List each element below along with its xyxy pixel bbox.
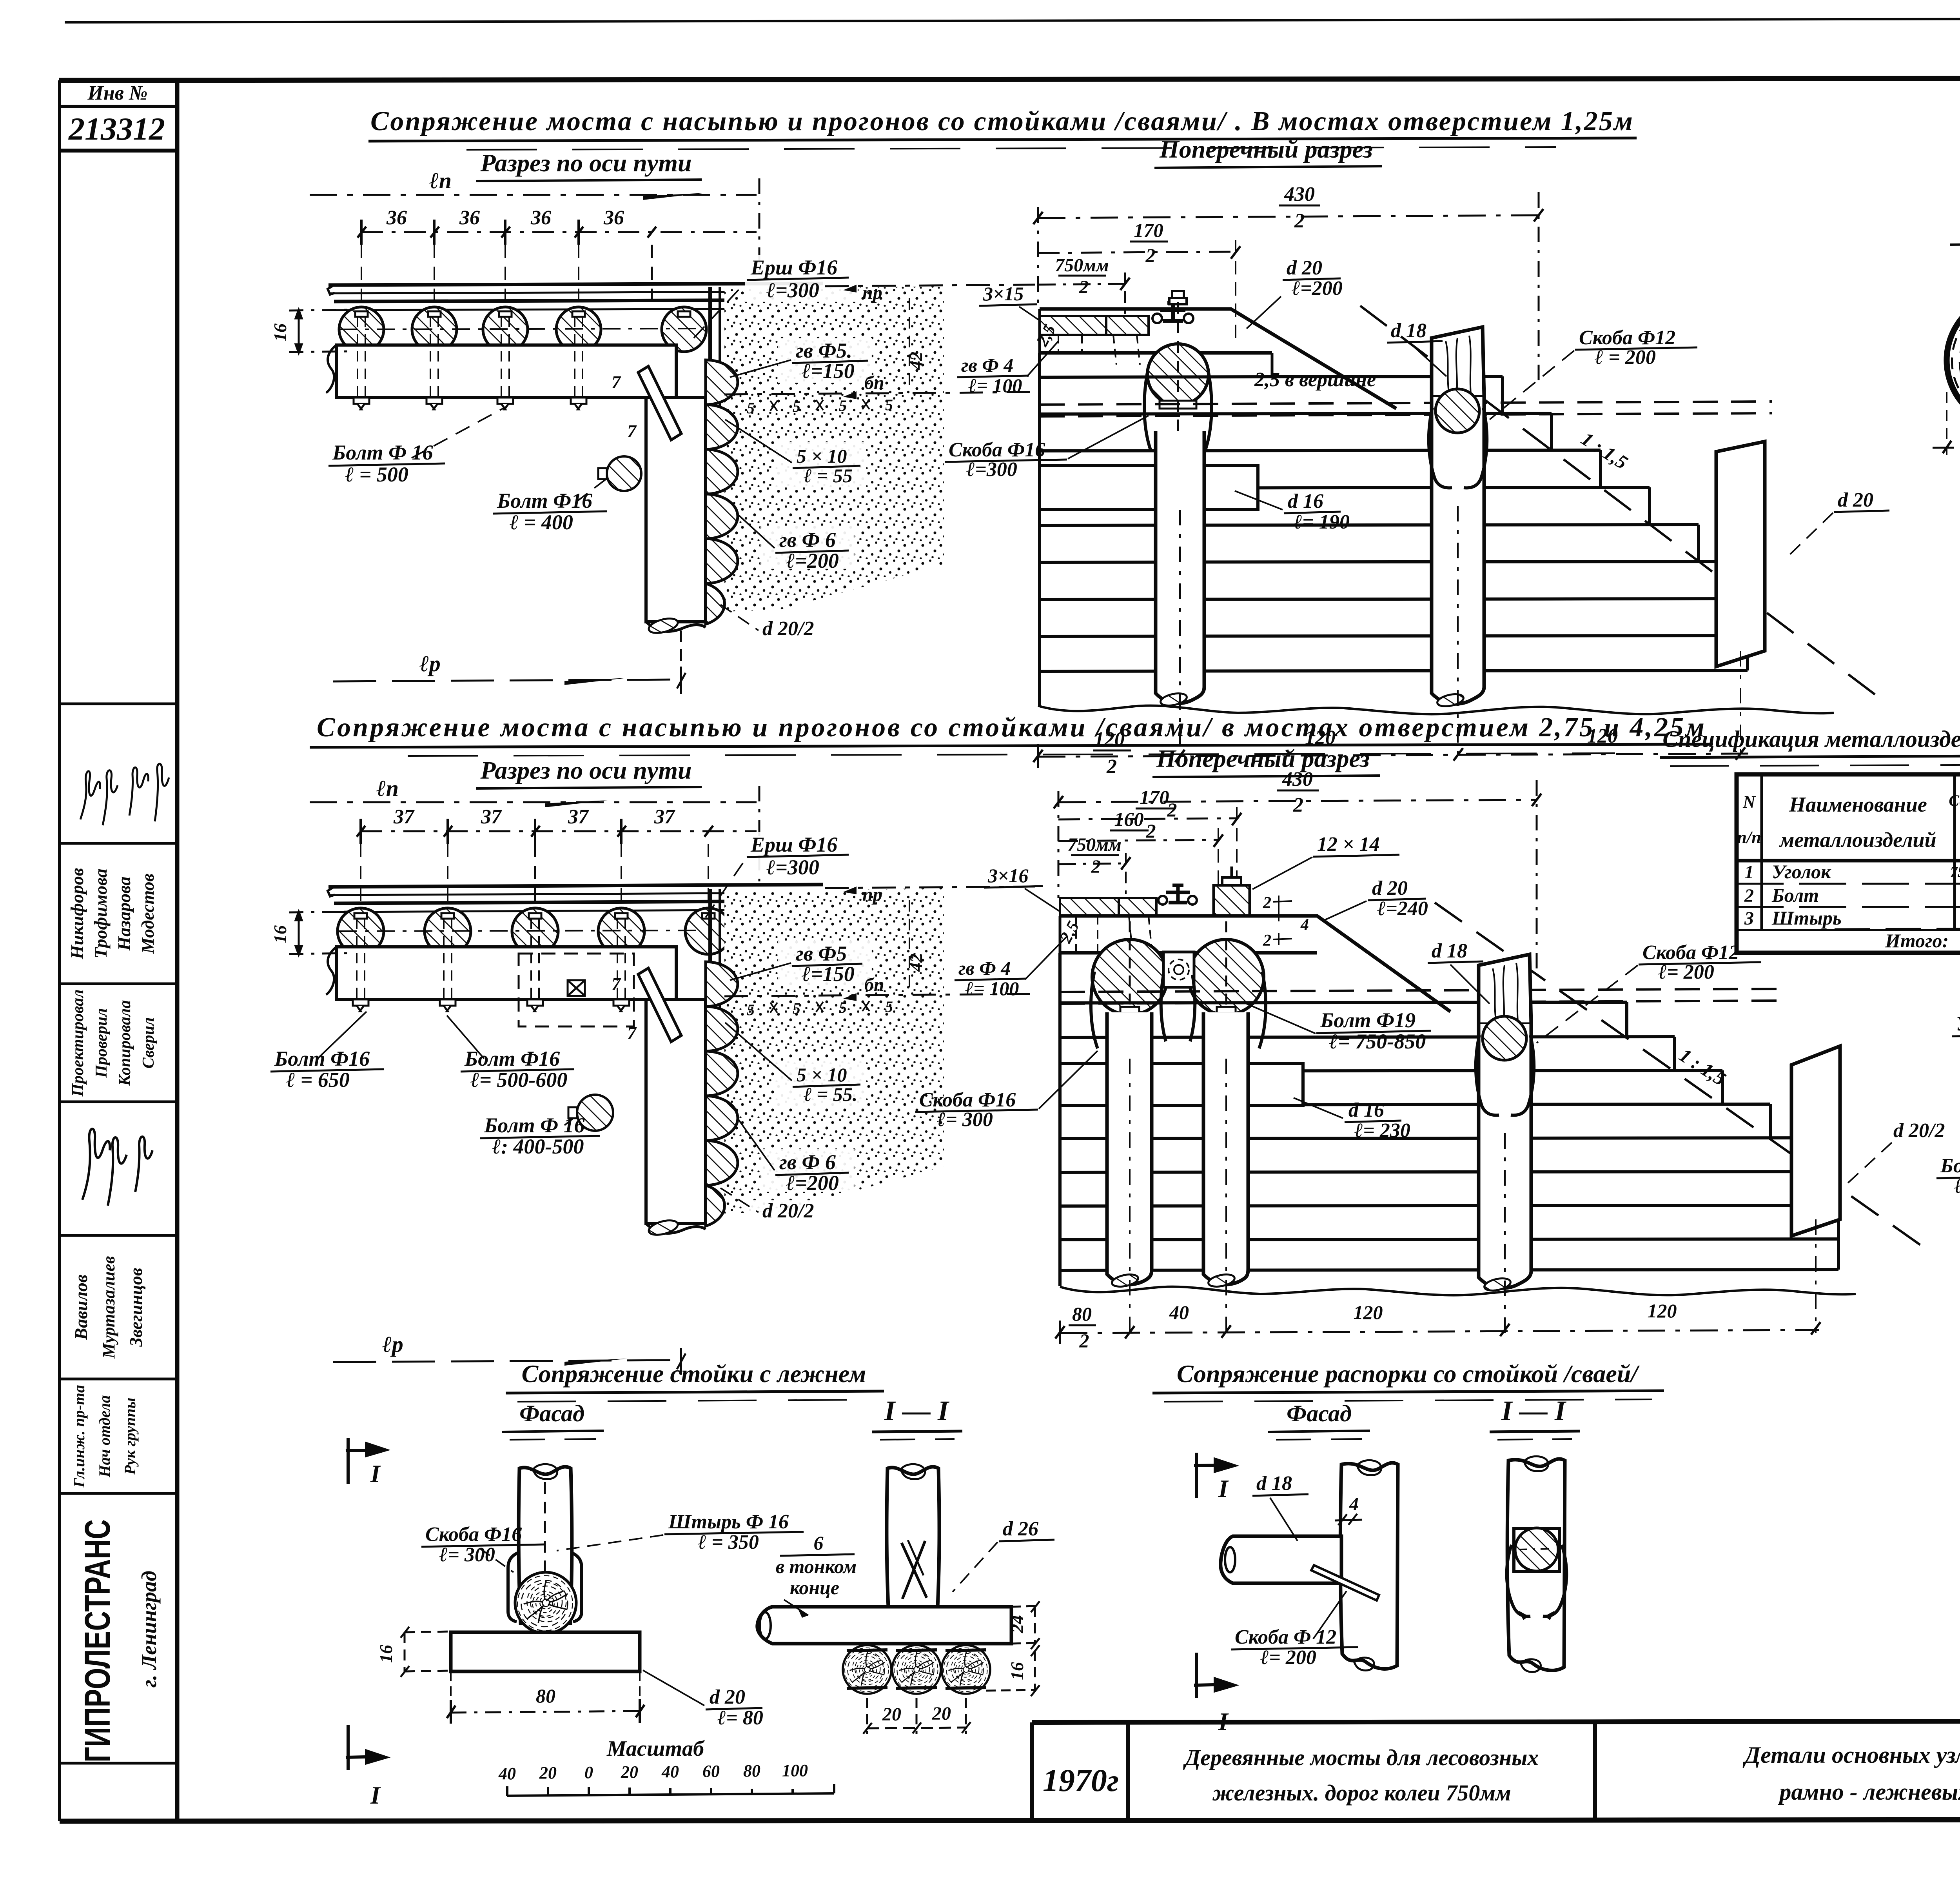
svg-text:7: 7: [612, 372, 621, 392]
svg-text:ℓ = 350: ℓ = 350: [698, 1531, 759, 1553]
svg-text:Разрез по оси пути: Разрез по оси пути: [480, 756, 691, 784]
dims 20 20 below: [863, 1698, 971, 1734]
svg-text:Скоба Ф12: Скоба Ф12: [1642, 941, 1739, 964]
svg-text:2: 2: [1167, 799, 1177, 821]
post (stojka): [646, 398, 706, 622]
lezhen beam: [1040, 465, 1258, 510]
section marker bottom: [346, 1725, 385, 1770]
svg-text:36: 36: [530, 207, 551, 229]
svg-text:ℓ=200: ℓ=200: [786, 549, 839, 572]
tie centers axis line: [339, 329, 704, 329]
svg-text:Итого:: Итого:: [1885, 930, 1949, 952]
svg-text:Уголок 75×75×8: Уголок 75×75×8: [1956, 1013, 1960, 1035]
hatched circle on middle pile: [1483, 1016, 1526, 1060]
svg-text:5: 5: [839, 999, 847, 1016]
svg-text:гв Ф5: гв Ф5: [796, 942, 847, 965]
36 dim line: [361, 231, 757, 233]
tie centers axis line: [339, 930, 704, 931]
pr level line: [825, 285, 1035, 286]
lezhen beam with markers: [1060, 1063, 1303, 1106]
svg-text:20: 20: [539, 1763, 557, 1782]
svg-text:d 20: d 20: [1287, 257, 1322, 279]
crossed pins in I-I post: [902, 1540, 927, 1599]
embankment stipple: [724, 888, 944, 1213]
svg-text:Копировала: Копировала: [116, 1000, 134, 1086]
svg-text:16: 16: [270, 323, 290, 342]
svg-text:Уголок: Уголок: [1772, 861, 1831, 883]
rail lines: [328, 885, 823, 887]
svg-text:75×75×8: 75×75×8: [1950, 864, 1960, 880]
svg-text:ℓ= 300: ℓ= 300: [937, 1108, 993, 1131]
svg-text:16: 16: [270, 925, 290, 943]
svg-text:ℓ= 500-600: ℓ= 500-600: [470, 1068, 567, 1092]
svg-text:Рук группы: Рук группы: [121, 1398, 139, 1475]
svg-text:80: 80: [743, 1761, 760, 1780]
bolts through circles: [1130, 921, 1226, 1059]
svg-text:ℓ=200: ℓ=200: [786, 1171, 839, 1195]
svg-text:Детали основных узлов свайн: Детали основных узлов свайных и: [1742, 1742, 1960, 1768]
dim 430/2: [1038, 215, 1539, 218]
svg-text:ℓ=200: ℓ=200: [1292, 277, 1343, 300]
I-I post: [887, 1467, 939, 1607]
hatched block 12x14: [1214, 885, 1250, 916]
svg-text:Масштаб: Масштаб: [606, 1737, 705, 1761]
svg-text:ℓ= 200: ℓ= 200: [1260, 1646, 1316, 1669]
dim 170/2: [1058, 818, 1237, 819]
sidebar signatures group 1: [80, 764, 169, 825]
svg-text:4: 4: [1349, 1494, 1359, 1515]
svg-text:гв Ф5.: гв Ф5.: [796, 339, 852, 362]
svg-text:d 20/2: d 20/2: [1893, 1119, 1945, 1142]
sill beam fasad: [451, 1632, 640, 1671]
bolt with round head on post: [607, 456, 641, 491]
board 3: [1716, 441, 1765, 667]
svg-text:5 × 10: 5 × 10: [797, 445, 847, 467]
svg-text:Деревянные мосты для лесовозны: Деревянные мосты для лесовозных: [1183, 1745, 1539, 1770]
svg-text:Штырь Ф 16: Штырь Ф 16: [668, 1511, 789, 1533]
bolt heads above ties: [354, 913, 715, 919]
svg-text:железных. дорог колеи 750мм: железных. дорог колеи 750мм: [1212, 1780, 1511, 1806]
right board: [1791, 1046, 1840, 1236]
svg-text:5: 5: [885, 396, 893, 414]
middle pile: [1479, 1024, 1531, 1288]
svg-text:Сверил: Сверил: [140, 1017, 158, 1069]
svg-text:2: 2: [1146, 820, 1156, 842]
svg-text:Муртазалиев: Муртазалиев: [99, 1256, 118, 1359]
staple clamp middle pile: [1476, 1035, 1534, 1115]
svg-text:Сечение: Сечение: [1949, 792, 1960, 809]
half-log wall: [706, 962, 738, 1226]
spacer beam M: [1221, 1536, 1341, 1583]
svg-text:бп: бп: [864, 372, 884, 393]
svg-text:37: 37: [568, 806, 589, 828]
svg-text:120: 120: [1354, 1301, 1383, 1323]
svg-text:60: 60: [702, 1762, 720, 1781]
svg-text:г. Ленинград: г. Ленинград: [137, 1571, 161, 1688]
svg-text:ℓ = 650: ℓ = 650: [286, 1068, 350, 1092]
svg-text:2: 2: [1744, 885, 1754, 906]
stepped log bands: [1040, 353, 1748, 706]
svg-text:N: N: [1742, 792, 1756, 812]
svg-text:213312: 213312: [68, 111, 165, 147]
svg-text:Сопряжение распорки со стойк: Сопряжение распорки со стойкой /сваей/: [1177, 1360, 1640, 1388]
sidebar row line under 213312: [60, 149, 177, 153]
svg-text:5: 5: [747, 399, 755, 417]
embankment stipple: [724, 286, 944, 612]
svg-text:3: 3: [1744, 908, 1754, 929]
svg-text:0: 0: [584, 1763, 593, 1782]
svg-text:ℓ= 230: ℓ= 230: [1354, 1119, 1410, 1142]
svg-text:рамно - лежневых мостов .: рамно - лежневых мостов .: [1777, 1779, 1960, 1805]
svg-text:I — I: I — I: [884, 1395, 950, 1426]
fasad post: [519, 1467, 572, 1623]
half-log wall: [706, 360, 738, 624]
svg-text:бп: бп: [864, 974, 884, 995]
svg-text:ℓ=300: ℓ=300: [766, 856, 819, 879]
svg-text:d 18: d 18: [1432, 940, 1467, 962]
svg-text:750мм: 750мм: [1067, 834, 1122, 855]
post (stojka): [646, 999, 706, 1224]
svg-text:Звегинцов: Звегинцов: [126, 1268, 146, 1347]
lp dimension line: [310, 801, 757, 803]
svg-text:Никифоров: Никифоров: [67, 868, 87, 960]
svg-text:5: 5: [747, 1001, 755, 1019]
svg-text:24: 24: [1007, 1615, 1027, 1633]
fasad staple right: [572, 1553, 582, 1622]
svg-text:ℓ = 200: ℓ = 200: [1595, 346, 1656, 369]
svg-text:Болт Ф19: Болт Ф19: [1320, 1008, 1416, 1032]
tie bolts through beam: [357, 919, 625, 1004]
scale bar bottom: [507, 1784, 834, 1796]
staple clamp pile2: [1429, 408, 1487, 488]
svg-text:430: 430: [1282, 768, 1313, 790]
svg-text:2,5 в вершине: 2,5 в вершине: [1254, 369, 1376, 391]
svg-text:Проектировал: Проектировал: [69, 989, 87, 1097]
svg-text:120: 120: [1648, 1300, 1677, 1322]
nail dashed marks under deck: [1058, 335, 1140, 365]
svg-text:d 18: d 18: [1391, 320, 1426, 342]
svg-text:ℓ= 100: ℓ= 100: [965, 977, 1019, 999]
svg-text:Гл.инж. пр-та: Гл.инж. пр-та: [70, 1385, 88, 1488]
svg-text:ℓ= 190: ℓ= 190: [1294, 511, 1350, 533]
svg-text:ℓ=300: ℓ=300: [766, 278, 819, 302]
rail profile small: [1166, 885, 1190, 903]
tie bolts through beam: [358, 317, 688, 402]
nail dashed marks under deck: [1076, 916, 1152, 951]
svg-text:Поперечный разрез: Поперечный разрез: [1159, 135, 1373, 163]
svg-text:d 20: d 20: [1838, 489, 1873, 511]
svg-text:ℓр: ℓр: [382, 1332, 403, 1357]
sidebar signatures group 2: [82, 1129, 152, 1206]
svg-text:d 26: d 26: [1003, 1518, 1038, 1540]
svg-text:5: 5: [793, 999, 800, 1017]
section marker top: [346, 1438, 385, 1484]
svg-text:Сопряжение моста с насыпью: Сопряжение моста с насыпью и прогонов со…: [317, 712, 1704, 743]
wavy ground line: [1060, 1287, 1856, 1295]
svg-text:Болт Ф16: Болт Ф16: [274, 1047, 370, 1070]
svg-text:750мм: 750мм: [1055, 255, 1109, 276]
wood grain board on pile 2: [1432, 327, 1484, 397]
wavy ground line: [1038, 706, 1834, 714]
bolt heads above ties: [355, 311, 690, 317]
log girder vershina: [1947, 294, 1960, 426]
svg-text:I: I: [1218, 1475, 1229, 1502]
svg-text:пр: пр: [862, 282, 882, 303]
bp level line: [724, 994, 1035, 996]
svg-text:металлоизделий: металлоизделий: [1779, 828, 1936, 852]
shtyr dashed in post: [544, 1482, 546, 1608]
svg-text:80: 80: [1072, 1303, 1092, 1325]
svg-text:36: 36: [603, 207, 624, 229]
bottom dim D: [1947, 388, 1960, 455]
sidebar right border: [175, 80, 180, 1821]
fasad post M: [1340, 1463, 1398, 1669]
svg-text:2: 2: [1263, 932, 1271, 950]
I-I post M: [1507, 1459, 1565, 1670]
svg-text:Скоба Ф16: Скоба Ф16: [919, 1089, 1016, 1111]
svg-text:2: 2: [1106, 756, 1117, 778]
diagonal brace pin: [638, 366, 681, 440]
dim 750mm/2: [1058, 863, 1126, 864]
svg-text:160: 160: [1114, 808, 1144, 830]
outer frame left: [58, 80, 61, 1821]
svg-text:170: 170: [1134, 219, 1163, 241]
sidebar row line under Inv No: [60, 105, 177, 108]
svg-text:Нач отдела: Нач отдела: [96, 1395, 113, 1477]
svg-text:Болт: Болт: [1771, 884, 1819, 906]
svg-text:ℓ=300: ℓ=300: [966, 458, 1017, 481]
svg-text:d 20/2: d 20/2: [762, 618, 814, 640]
svg-text:Разрез по оси пути: Разрез по оси пути: [480, 149, 691, 177]
svg-text:Скоба Ф12: Скоба Ф12: [1579, 327, 1675, 349]
verticals from dim to rail: [361, 844, 708, 908]
diagonal brace pin: [638, 968, 681, 1042]
dashed splice box in beam: [519, 954, 634, 1026]
svg-text:2: 2: [1294, 210, 1305, 232]
dim 750mm/2: [1038, 284, 1125, 285]
grain board on middle pile: [1479, 954, 1531, 1024]
pr level line: [825, 887, 1035, 888]
svg-text:Поперечный разрез: Поперечный разрез: [1156, 745, 1370, 772]
svg-text:ℓ= 300: ℓ= 300: [439, 1544, 495, 1566]
svg-text:ℓ= 300: ℓ= 300: [1954, 1175, 1960, 1197]
slope dashed line 1:1.5: [1360, 306, 1882, 699]
section marker top M: [1194, 1453, 1234, 1498]
svg-text:гв Ф 6: гв Ф 6: [779, 528, 836, 552]
svg-text:ℓп: ℓп: [429, 168, 452, 193]
svg-text:80: 80: [536, 1685, 555, 1707]
hatched circle on pile 2: [1436, 389, 1479, 433]
svg-text:12 × 14: 12 × 14: [1317, 833, 1380, 856]
svg-text:37: 37: [481, 806, 502, 828]
dim 170/2: [1038, 252, 1236, 253]
37 dim line: [361, 830, 757, 832]
svg-text:170: 170: [1140, 786, 1169, 808]
svg-text:37: 37: [393, 806, 415, 828]
svg-text:2: 2: [1145, 244, 1156, 266]
svg-text:5 × 10: 5 × 10: [797, 1064, 847, 1086]
table column lines: [1762, 774, 1960, 953]
svg-text:Болт Ф19: Болт Ф19: [1940, 1155, 1960, 1177]
plank of retaining wall: [708, 889, 712, 1048]
stepped log bands: [1060, 953, 1838, 1286]
svg-text:2: 2: [1079, 1330, 1089, 1352]
svg-text:I: I: [370, 1781, 381, 1809]
svg-text:Ерш Ф16: Ерш Ф16: [750, 256, 837, 279]
svg-text:Модестов: Модестов: [138, 874, 158, 954]
svg-text:20: 20: [932, 1703, 951, 1724]
sidebar row lines: [60, 703, 177, 705]
svg-text:ℓ = 55.: ℓ = 55.: [804, 1083, 857, 1105]
svg-text:37: 37: [654, 806, 675, 828]
svg-text:40: 40: [498, 1764, 516, 1783]
svg-text:20: 20: [882, 1704, 901, 1725]
svg-text:d 20: d 20: [710, 1686, 745, 1708]
outer frame top: [59, 78, 1960, 80]
svg-text:4: 4: [1300, 916, 1309, 934]
table header separator: [1737, 859, 1960, 863]
svg-text:ГИПРОЛЕСТРАНС: ГИПРОЛЕСТРАНС: [78, 1519, 118, 1762]
svg-text:d 20: d 20: [1372, 877, 1408, 899]
log circle at post base: [515, 1572, 576, 1633]
cap beam: [1060, 916, 1450, 1012]
lp dimension line: [310, 194, 757, 196]
staple clamps on twin circles: [1091, 972, 1166, 1048]
cap beam: [1040, 309, 1396, 409]
svg-text:Скоба Ф16: Скоба Ф16: [949, 439, 1045, 461]
svg-text:ℓ= 80: ℓ= 80: [717, 1707, 763, 1729]
svg-text:ℓ = 400: ℓ = 400: [510, 510, 573, 534]
svg-text:Наименование: Наименование: [1789, 793, 1927, 816]
svg-text:7: 7: [627, 1023, 637, 1043]
notch square with hatched circle M: [1514, 1528, 1559, 1571]
svg-text:Штырь: Штырь: [1771, 907, 1842, 929]
svg-text:2: 2: [1079, 277, 1089, 298]
girder beam: [336, 947, 676, 999]
svg-text:Вавилов: Вавилов: [71, 1275, 91, 1341]
svg-text:Скоба Ф 12: Скоба Ф 12: [1235, 1626, 1336, 1648]
staple clamp M: [1507, 1545, 1567, 1616]
svg-text:6: 6: [814, 1532, 824, 1554]
svg-text:7: 7: [612, 974, 621, 994]
section marker bottom M: [1194, 1653, 1234, 1698]
svg-text:конце: конце: [790, 1577, 839, 1599]
svg-text:пр: пр: [862, 884, 882, 905]
svg-text:ℓр: ℓр: [419, 651, 441, 676]
title block top border: [1032, 1720, 1960, 1722]
central dashed lines: [1040, 401, 1772, 405]
rail lines: [328, 283, 823, 285]
svg-text:ℓ = 55: ℓ = 55: [804, 465, 853, 487]
svg-text:d 16: d 16: [1288, 490, 1323, 512]
diagonal skoba pin M: [1311, 1565, 1379, 1600]
svg-text:ℓ = 500: ℓ = 500: [345, 463, 408, 486]
verticals from dim to rail: [361, 245, 652, 307]
cross-tie hatched circles: [339, 307, 384, 352]
svg-text:Спецификация металлоизделий: Спецификация металлоизделий на один стык: [1662, 726, 1960, 752]
deck plank hatched: [1060, 898, 1119, 916]
svg-text:I: I: [1218, 1708, 1229, 1735]
pile 1: [1156, 431, 1204, 703]
fasad staple left: [508, 1553, 518, 1622]
table row lines: [1737, 884, 1960, 930]
svg-text:Фасад: Фасад: [519, 1401, 584, 1426]
slope dashed line 1:1.5: [1435, 903, 1921, 1245]
pile 2: [1432, 397, 1484, 704]
staple clamp on cap tie: [1144, 372, 1212, 451]
svg-text:ℓ=150: ℓ=150: [802, 359, 855, 383]
plank of retaining wall: [708, 287, 712, 446]
bolt with round head on post: [577, 1095, 613, 1131]
svg-text:1: 1: [1744, 862, 1754, 883]
svg-text:ℓп: ℓп: [376, 776, 399, 801]
svg-text:16: 16: [376, 1645, 396, 1663]
svg-text:ℓ=150: ℓ=150: [802, 962, 855, 986]
svg-text:1970г: 1970г: [1043, 1762, 1119, 1798]
svg-text:5: 5: [793, 398, 800, 415]
svg-text:в тонком: в тонком: [776, 1555, 857, 1577]
svg-text:2: 2: [1091, 856, 1101, 877]
svg-text:Болт Ф 16: Болт Ф 16: [332, 441, 433, 464]
svg-text:Скоба Ф16: Скоба Ф16: [425, 1523, 522, 1546]
vertical bolt on cap: [1169, 298, 1187, 304]
svg-text:ℓ=240: ℓ=240: [1377, 897, 1428, 920]
svg-text:Фасад: Фасад: [1287, 1401, 1352, 1426]
deck plank hatched: [1040, 316, 1106, 335]
svg-text:3×15: 3×15: [983, 283, 1024, 305]
svg-text:Проверил: Проверил: [93, 1008, 111, 1078]
svg-text:Сопряжение стойки с лежнем: Сопряжение стойки с лежнем: [521, 1360, 866, 1388]
cross-tie hatched circles: [338, 908, 384, 954]
girder beam: [336, 345, 676, 398]
svg-text:п/п: п/п: [1737, 828, 1761, 847]
svg-text:d 18: d 18: [1256, 1472, 1292, 1495]
bottom dims of C: [1038, 754, 1748, 757]
svg-text:2: 2: [1293, 794, 1303, 816]
I-I sill log: [757, 1607, 1011, 1644]
svg-text:2: 2: [1263, 894, 1271, 912]
svg-text:ℓ= 100: ℓ= 100: [968, 374, 1022, 396]
bp level line: [724, 392, 1035, 394]
dim 160/2: [1058, 840, 1218, 841]
svg-text:40: 40: [661, 1762, 679, 1781]
svg-text:ℓ= 750-850: ℓ= 750-850: [1329, 1030, 1426, 1053]
pile 2 left: [1203, 1012, 1248, 1284]
svg-text:I — I: I — I: [1501, 1395, 1567, 1426]
top paper edge line: [65, 18, 1960, 22]
svg-text:Инв №: Инв №: [87, 82, 147, 104]
svg-text:36: 36: [459, 207, 480, 229]
svg-text:16: 16: [1007, 1662, 1027, 1680]
svg-text:20: 20: [621, 1762, 638, 1782]
svg-text:40: 40: [1169, 1301, 1189, 1323]
svg-text:3×16: 3×16: [987, 865, 1029, 887]
svg-text:ℓ= 200: ℓ= 200: [1658, 961, 1714, 983]
svg-text:гв Ф 6: гв Ф 6: [779, 1150, 836, 1174]
svg-text:430: 430: [1284, 183, 1315, 205]
svg-text:Трофимова: Трофимова: [91, 868, 111, 958]
svg-text:гв Ф 4: гв Ф 4: [958, 957, 1011, 979]
table outer border: [1737, 774, 1960, 953]
cap cross-tie hatched circle: [1147, 344, 1209, 405]
svg-text:100: 100: [782, 1761, 808, 1780]
rail profile small: [1160, 303, 1185, 321]
svg-text:5: 5: [839, 397, 847, 414]
bottom dims of G: [1060, 1330, 1819, 1333]
title block dividers: [1032, 1721, 1960, 1820]
outer frame bottom: [60, 1819, 1960, 1821]
three small logs below sill: [843, 1645, 891, 1694]
